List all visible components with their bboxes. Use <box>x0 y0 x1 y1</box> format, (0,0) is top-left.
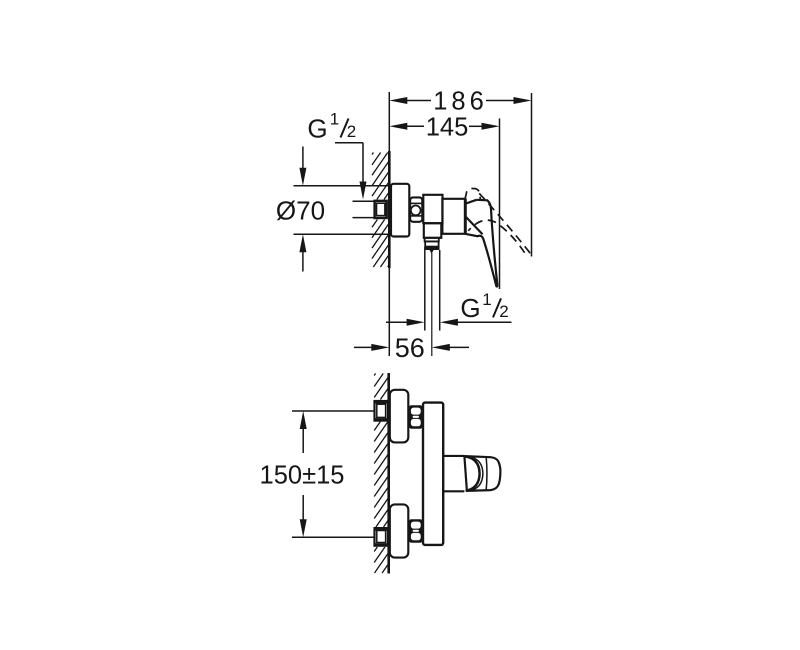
svg-text:1: 1 <box>482 290 491 309</box>
svg-text:2: 2 <box>499 302 508 321</box>
svg-text:145: 145 <box>426 113 469 141</box>
svg-text:G: G <box>460 293 480 323</box>
svg-text:2: 2 <box>347 122 356 141</box>
svg-text:186: 186 <box>433 87 488 115</box>
svg-text:G: G <box>307 113 327 143</box>
svg-text:Ø70: Ø70 <box>276 196 325 226</box>
svg-text:56: 56 <box>395 333 425 363</box>
svg-text:150±15: 150±15 <box>260 461 345 489</box>
svg-text:1: 1 <box>330 110 339 129</box>
